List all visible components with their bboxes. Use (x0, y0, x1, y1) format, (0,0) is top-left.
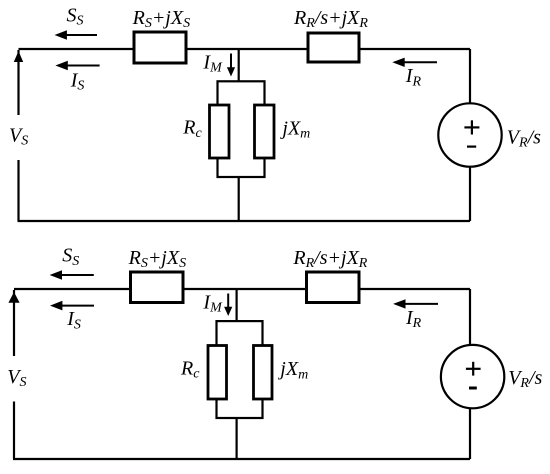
svg-text:VS: VS (9, 125, 28, 149)
svg-text:Rc: Rc (182, 117, 202, 141)
svg-text:jXm: jXm (279, 117, 310, 141)
svg-text:SS: SS (62, 245, 79, 269)
svg-text:RS+jXS: RS+jXS (132, 7, 191, 31)
svg-text:jXm: jXm (277, 358, 308, 382)
svg-text:IS: IS (70, 69, 85, 93)
svg-text:IS: IS (66, 308, 81, 332)
svg-text:RS+jXS: RS+jXS (128, 247, 187, 271)
svg-text:RR/s+jXR: RR/s+jXR (292, 247, 367, 271)
svg-text:IM: IM (202, 291, 223, 315)
svg-text:VR/s: VR/s (507, 127, 541, 151)
svg-text:IR: IR (405, 65, 422, 89)
svg-text:Rc: Rc (180, 357, 200, 381)
svg-text:VS: VS (7, 366, 26, 390)
svg-text:VR/s: VR/s (508, 367, 542, 391)
svg-text:IM: IM (202, 51, 223, 75)
svg-text:IR: IR (405, 307, 422, 331)
svg-text:SS: SS (67, 4, 84, 28)
svg-text:RR/s+jXR: RR/s+jXR (293, 7, 368, 31)
